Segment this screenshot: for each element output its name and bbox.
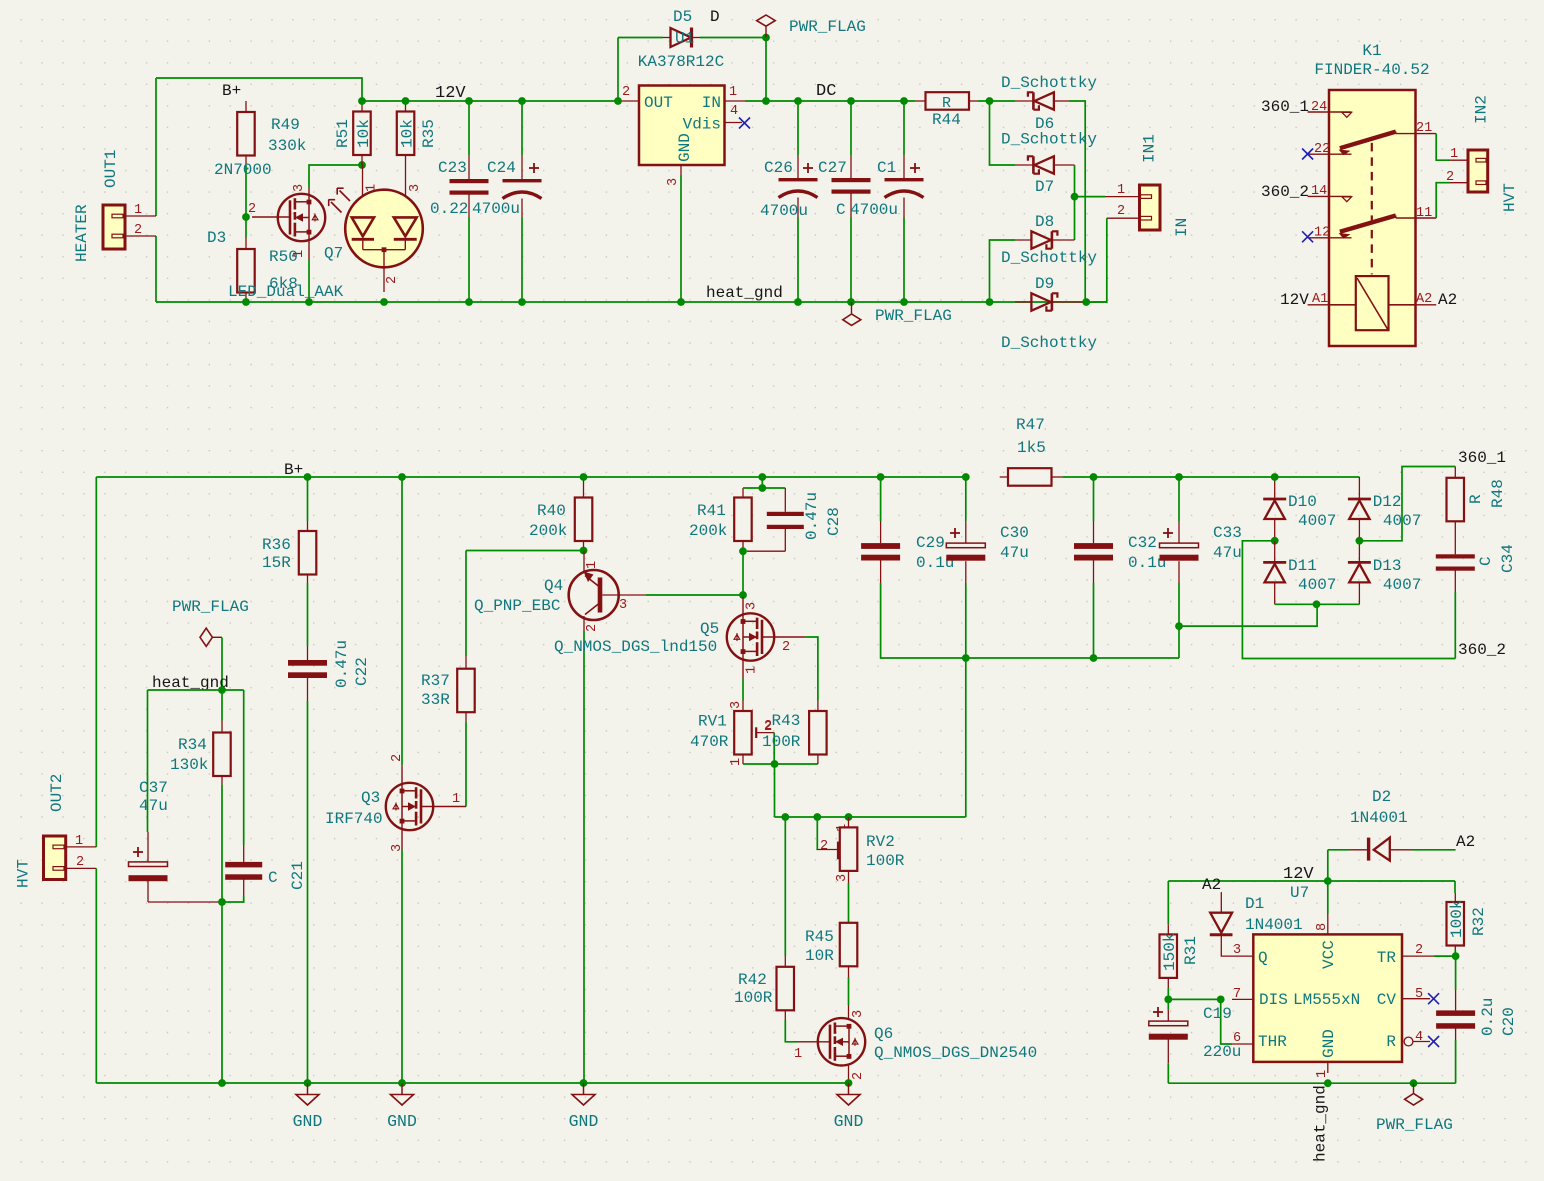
svg-text:R: R bbox=[1386, 1033, 1396, 1051]
svg-text:GND: GND bbox=[676, 133, 694, 162]
svg-text:2N7000: 2N7000 bbox=[214, 161, 272, 179]
power flag PWR_FLAG 555 bbox=[1376, 1083, 1453, 1134]
junction D9 cathode bbox=[1082, 298, 1090, 306]
wire to IN1 pin1 bbox=[1075, 196, 1106, 198]
junction C26 bottom bbox=[794, 298, 802, 306]
svg-text:D: D bbox=[710, 8, 720, 26]
junction 555 GND pin bbox=[1324, 1079, 1332, 1087]
svg-text:A2: A2 bbox=[1416, 292, 1432, 307]
resistor R42 100R bbox=[734, 817, 794, 1020]
svg-text:PWR_FLAG: PWR_FLAG bbox=[875, 307, 952, 325]
capacitor C19 220u bbox=[1149, 999, 1242, 1083]
svg-text:C28: C28 bbox=[825, 507, 843, 536]
connector OUT1 HEATER bbox=[73, 150, 156, 262]
resistor R45 10R bbox=[805, 923, 857, 977]
wire R49 to gate node bbox=[245, 166, 247, 238]
diode D8 D_Schottky bbox=[1001, 213, 1097, 267]
svg-text:R47: R47 bbox=[1016, 416, 1045, 434]
wire heat_gnd island rail bbox=[148, 689, 244, 691]
junction 12V 555 bbox=[1324, 877, 1332, 885]
wire R34 to bottom node bbox=[221, 785, 223, 902]
wire heat_gnd top rail bbox=[156, 301, 1107, 303]
wire R42 to Q6 gate bbox=[785, 1020, 798, 1042]
junction Q7 cathode bbox=[380, 298, 388, 306]
capacitor C20 0.2u bbox=[1436, 956, 1518, 1083]
svg-text:24: 24 bbox=[1311, 100, 1327, 115]
svg-text:470R: 470R bbox=[690, 733, 729, 751]
capacitor C27 4700u bbox=[818, 101, 898, 302]
svg-text:IRF740: IRF740 bbox=[325, 810, 383, 828]
wire caps bottom rail bbox=[966, 657, 1179, 659]
svg-text:RV2: RV2 bbox=[866, 833, 895, 851]
junction IN1 pin1 node bbox=[1071, 193, 1079, 201]
svg-text:10k: 10k bbox=[398, 119, 416, 148]
svg-text:U7: U7 bbox=[1290, 884, 1309, 902]
svg-text:A1: A1 bbox=[1312, 292, 1328, 307]
junction R40 bottom bbox=[580, 547, 588, 555]
svg-text:47u: 47u bbox=[1213, 544, 1242, 562]
junction C32 top bbox=[1090, 473, 1098, 481]
svg-text:K1: K1 bbox=[1362, 42, 1381, 60]
svg-text:7: 7 bbox=[1233, 987, 1241, 1002]
junction R40 top bbox=[580, 473, 588, 481]
junction C23 bottom bbox=[465, 298, 473, 306]
svg-text:100R: 100R bbox=[762, 733, 801, 751]
wire regulator GND bbox=[680, 175, 682, 302]
svg-text:47u: 47u bbox=[139, 797, 168, 815]
capacitor C26 4700u bbox=[760, 101, 818, 302]
junction Q5 drain node bbox=[739, 591, 747, 599]
svg-text:B+: B+ bbox=[284, 461, 303, 479]
junction R41 link bbox=[758, 484, 766, 492]
svg-text:IN: IN bbox=[1173, 218, 1191, 237]
svg-text:PWR_FLAG: PWR_FLAG bbox=[789, 18, 866, 36]
svg-text:1: 1 bbox=[794, 1047, 802, 1062]
svg-text:12V: 12V bbox=[1283, 865, 1314, 884]
wire GND rail bbox=[96, 1082, 848, 1084]
capacitor C30 47u bbox=[946, 477, 1029, 658]
svg-text:Q3: Q3 bbox=[361, 789, 380, 807]
svg-text:PWR_FLAG: PWR_FLAG bbox=[172, 598, 249, 616]
wire Q3 source to GND bbox=[401, 849, 403, 1083]
svg-text:C20: C20 bbox=[1500, 1007, 1518, 1036]
svg-text:OUT2: OUT2 bbox=[48, 774, 66, 812]
junction pin2 bbox=[1452, 952, 1460, 960]
junction D11/D13 bottom bbox=[1313, 600, 1321, 608]
resistor R41 200k bbox=[689, 488, 752, 551]
svg-text:D7: D7 bbox=[1035, 178, 1054, 196]
junction IN rail bbox=[762, 97, 770, 105]
svg-text:4007: 4007 bbox=[1298, 512, 1336, 530]
junction row RV2 wiper bbox=[813, 813, 821, 821]
svg-text:D_Schottky: D_Schottky bbox=[1001, 131, 1097, 149]
svg-text:2: 2 bbox=[134, 223, 142, 238]
junction R35 top bbox=[402, 97, 410, 105]
svg-text:IN2: IN2 bbox=[1472, 95, 1490, 124]
capacitor C24 4700u bbox=[472, 101, 542, 302]
resistor R37 33R bbox=[421, 656, 475, 721]
relay K1 FINDER-40.52 bbox=[1308, 42, 1437, 346]
resistor R47 1k5 bbox=[1000, 416, 1063, 486]
svg-text:12V: 12V bbox=[435, 84, 466, 103]
svg-text:360_1: 360_1 bbox=[1261, 98, 1309, 116]
svg-text:CV: CV bbox=[1377, 991, 1397, 1009]
junction C24 bottom bbox=[518, 298, 526, 306]
svg-text:Q7: Q7 bbox=[324, 245, 343, 263]
junction R36 top bbox=[304, 473, 312, 481]
resistor R48 R bbox=[1447, 467, 1507, 555]
wire OUT1 top loop bbox=[156, 78, 362, 101]
wire D10 mid to 360_2 bbox=[1242, 541, 1455, 659]
svg-text:4700u: 4700u bbox=[760, 202, 808, 220]
wire RV1 node down to row bbox=[774, 764, 776, 817]
svg-text:3: 3 bbox=[619, 598, 627, 613]
svg-text:C19: C19 bbox=[1203, 1005, 1232, 1023]
junction C37/C21 node bbox=[218, 898, 226, 906]
capacitor C29 0.1u bbox=[861, 477, 966, 658]
svg-text:C29: C29 bbox=[916, 534, 945, 552]
resistor R43 100R bbox=[762, 701, 827, 765]
wire Q5 gate to R43 bbox=[806, 637, 818, 701]
svg-text:10k: 10k bbox=[355, 119, 373, 148]
junction GND Q3 bbox=[398, 1079, 406, 1087]
potentiometer RV2 100R bbox=[816, 817, 904, 883]
svg-text:3: 3 bbox=[744, 602, 759, 610]
svg-text:4700u: 4700u bbox=[472, 200, 520, 218]
resistor R31 150k bbox=[1160, 924, 1200, 999]
svg-text:1: 1 bbox=[75, 834, 83, 849]
svg-text:47u: 47u bbox=[1000, 544, 1029, 562]
svg-text:1: 1 bbox=[729, 85, 737, 100]
svg-text:22: 22 bbox=[1314, 142, 1330, 157]
svg-text:U1: U1 bbox=[675, 30, 694, 48]
svg-text:KA378R12C: KA378R12C bbox=[638, 53, 724, 71]
svg-text:1N4001: 1N4001 bbox=[1245, 916, 1303, 934]
svg-text:R49: R49 bbox=[271, 116, 300, 134]
junction 2N7000 source bbox=[305, 298, 313, 306]
wire rail IN to R44 bbox=[745, 100, 915, 102]
diode D2 1N4001 bbox=[1328, 788, 1456, 861]
junction C24 top bbox=[518, 97, 526, 105]
svg-text:1k5: 1k5 bbox=[1017, 439, 1046, 457]
wire 12V rail 555 bbox=[1168, 880, 1455, 882]
svg-text:4007: 4007 bbox=[1298, 576, 1336, 594]
svg-text:B+: B+ bbox=[222, 82, 241, 100]
svg-text:TR: TR bbox=[1377, 949, 1397, 967]
svg-text:D8: D8 bbox=[1035, 213, 1054, 231]
svg-text:4700u: 4700u bbox=[850, 201, 898, 219]
junction C30 top bbox=[962, 473, 970, 481]
capacitor C1 4700u bbox=[877, 101, 924, 302]
svg-text:Q4: Q4 bbox=[544, 577, 563, 595]
svg-text:200k: 200k bbox=[529, 522, 567, 540]
svg-text:D1: D1 bbox=[1245, 895, 1264, 913]
diode D12 4007 bbox=[1348, 477, 1421, 541]
junction C27 top bbox=[847, 97, 855, 105]
resistor R49 330k bbox=[237, 101, 306, 166]
junction C23 top bbox=[465, 97, 473, 105]
junction D12/D13 mid bbox=[1356, 537, 1364, 545]
junction C33 top bbox=[1175, 473, 1183, 481]
svg-text:R51: R51 bbox=[334, 119, 352, 148]
svg-text:Q_NMOS_DGS_DN2540: Q_NMOS_DGS_DN2540 bbox=[874, 1044, 1037, 1062]
svg-text:360_2: 360_2 bbox=[1261, 183, 1309, 201]
wire pin7 node down to pin6 bbox=[1221, 999, 1232, 1044]
svg-text:2: 2 bbox=[782, 640, 790, 655]
junction heat_gnd island bbox=[218, 686, 226, 694]
junction row RV2 top bbox=[845, 813, 853, 821]
svg-text:11: 11 bbox=[1416, 206, 1432, 221]
junction pin7 node bbox=[1217, 996, 1225, 1004]
junction R41 bottom bbox=[739, 547, 747, 555]
svg-text:IN: IN bbox=[702, 94, 721, 112]
svg-text:C1: C1 bbox=[877, 159, 896, 177]
junction gate node bbox=[242, 213, 250, 221]
svg-text:0.22: 0.22 bbox=[430, 200, 468, 218]
svg-text:heat_gnd: heat_gnd bbox=[1311, 1085, 1329, 1162]
svg-text:Q_NMOS_DGS_lnd150: Q_NMOS_DGS_lnd150 bbox=[554, 638, 717, 656]
svg-text:R44: R44 bbox=[932, 111, 961, 129]
svg-text:1: 1 bbox=[1315, 1070, 1330, 1078]
wire R40 base node bbox=[466, 550, 584, 552]
svg-text:1: 1 bbox=[1117, 183, 1125, 198]
svg-text:R36: R36 bbox=[262, 536, 291, 554]
ground GND 3 bbox=[583, 1083, 585, 1095]
svg-text:12V: 12V bbox=[1280, 291, 1309, 309]
resistor R35 10k bbox=[397, 101, 438, 218]
capacitor C32 0.1u bbox=[1074, 477, 1166, 658]
junction C30 bottom bbox=[962, 654, 970, 662]
wire C37 left leg bbox=[147, 690, 149, 832]
svg-text:Q6: Q6 bbox=[874, 1025, 893, 1043]
capacitor C34 C bbox=[1436, 544, 1517, 658]
svg-text:14: 14 bbox=[1311, 184, 1327, 199]
junction gate-R51 node bbox=[358, 161, 366, 169]
svg-text:A2: A2 bbox=[1456, 833, 1475, 851]
svg-text:Q5: Q5 bbox=[700, 620, 719, 638]
wire heat_gnd 555 rail bbox=[1168, 1082, 1455, 1084]
svg-text:D13: D13 bbox=[1373, 557, 1402, 575]
wire 12V rail bbox=[362, 100, 618, 102]
wire heater pin2 down bbox=[155, 236, 157, 302]
wire to IN1 pin2 bbox=[1086, 218, 1107, 302]
svg-text:DIS: DIS bbox=[1259, 991, 1288, 1009]
junction C32 bottom bbox=[1090, 654, 1098, 662]
svg-text:3: 3 bbox=[292, 184, 307, 192]
svg-text:A2: A2 bbox=[1202, 876, 1221, 894]
transistor Q3 IRF740 bbox=[325, 477, 466, 852]
wire pin2 node bbox=[1434, 955, 1456, 957]
wire D8 cathode up bbox=[1074, 197, 1076, 240]
wire 12V to pin8 bbox=[1327, 881, 1329, 914]
wire Q4 collector bbox=[646, 594, 743, 596]
svg-text:2: 2 bbox=[622, 85, 630, 100]
svg-text:150k: 150k bbox=[1161, 933, 1179, 971]
svg-text:C34: C34 bbox=[1499, 544, 1517, 573]
svg-text:D_Schottky: D_Schottky bbox=[1001, 74, 1097, 92]
no-connect pin5 bbox=[1428, 993, 1439, 1004]
resistor R34 130k bbox=[170, 690, 231, 785]
connector IN2 HVT bbox=[1446, 95, 1519, 212]
junction R51 top bbox=[358, 97, 366, 105]
wire D11 bottom bbox=[1275, 603, 1317, 605]
wire B+ rail bbox=[96, 476, 966, 478]
svg-text:C24: C24 bbox=[487, 159, 516, 177]
svg-text:330k: 330k bbox=[268, 137, 306, 155]
junction C33 mid node bbox=[1175, 622, 1183, 630]
ground GND 2 bbox=[401, 1083, 403, 1095]
junction D10/D11 mid bbox=[1271, 537, 1279, 545]
svg-text:2: 2 bbox=[851, 1072, 866, 1080]
svg-text:C33: C33 bbox=[1213, 524, 1242, 542]
svg-text:130k: 130k bbox=[170, 756, 208, 774]
svg-text:2: 2 bbox=[76, 855, 84, 870]
svg-text:LED_Dual_AAK: LED_Dual_AAK bbox=[228, 283, 344, 301]
transistor Q6 Q_NMOS_DGS_DN2540 bbox=[794, 1005, 1037, 1083]
transistor Q4 Q_PNP_EBC bbox=[474, 551, 646, 633]
svg-text:GND: GND bbox=[293, 1112, 323, 1131]
svg-text:3: 3 bbox=[666, 178, 681, 186]
svg-text:21: 21 bbox=[1416, 121, 1432, 136]
junction D8 rail bbox=[986, 298, 994, 306]
svg-text:D12: D12 bbox=[1373, 493, 1402, 511]
wire feedback row bbox=[775, 816, 966, 818]
svg-text:heat_gnd: heat_gnd bbox=[706, 284, 783, 302]
junction rail R41 bbox=[758, 473, 766, 481]
transistor Q1 2N7000 bbox=[214, 161, 325, 260]
transistor Q5 Q_NMOS_DGS_lnd150 bbox=[554, 597, 806, 679]
svg-text:LM555xN: LM555xN bbox=[1293, 991, 1360, 1009]
svg-text:OUT1: OUT1 bbox=[102, 150, 120, 188]
svg-text:6: 6 bbox=[1233, 1031, 1241, 1046]
svg-text:R40: R40 bbox=[537, 502, 566, 520]
svg-text:12: 12 bbox=[1314, 226, 1330, 241]
svg-text:R42: R42 bbox=[738, 971, 767, 989]
svg-text:1: 1 bbox=[292, 250, 307, 258]
power flag PWR_FLAG mid bbox=[172, 598, 249, 646]
resistor R44 R bbox=[915, 92, 1015, 129]
svg-text:D10: D10 bbox=[1288, 493, 1317, 511]
svg-text:R35: R35 bbox=[420, 119, 438, 148]
svg-text:2: 2 bbox=[820, 839, 828, 854]
svg-text:R37: R37 bbox=[421, 672, 450, 690]
svg-text:100k: 100k bbox=[1448, 900, 1466, 938]
junction row R42 bbox=[781, 813, 789, 821]
svg-text:4: 4 bbox=[1415, 1030, 1423, 1045]
wire D13 bottom bbox=[1317, 603, 1360, 605]
svg-text:3: 3 bbox=[835, 874, 850, 882]
svg-text:5: 5 bbox=[1415, 987, 1423, 1002]
svg-text:R41: R41 bbox=[697, 502, 726, 520]
svg-text:C: C bbox=[268, 869, 278, 887]
svg-text:Q_PNP_EBC: Q_PNP_EBC bbox=[474, 597, 560, 615]
svg-text:2: 2 bbox=[1415, 943, 1423, 958]
capacitor C28 0.47u bbox=[747, 488, 843, 551]
wire D2 to 12V bbox=[1327, 850, 1329, 881]
svg-text:GND: GND bbox=[1320, 1029, 1338, 1058]
junction R31 bottom bbox=[1164, 996, 1172, 1004]
wire D7 cathode branch bbox=[990, 101, 1016, 165]
svg-text:15R: 15R bbox=[262, 554, 291, 572]
svg-text:C: C bbox=[836, 201, 846, 219]
wire heater pin1 bbox=[155, 78, 157, 216]
junction R50 bottom bbox=[242, 298, 250, 306]
junction C26 top bbox=[794, 97, 802, 105]
svg-text:10R: 10R bbox=[805, 947, 834, 965]
diode D6 D_Schottky bbox=[1001, 74, 1097, 133]
svg-text:8: 8 bbox=[1315, 923, 1330, 931]
wire PWR_FLAG to heat_gnd bbox=[221, 638, 223, 691]
svg-text:A2: A2 bbox=[1438, 291, 1457, 309]
diode D11 4007 bbox=[1263, 541, 1336, 605]
junction OUT pin bbox=[614, 97, 622, 105]
no-connect relay pin22 bbox=[1302, 149, 1313, 160]
svg-text:3: 3 bbox=[1233, 943, 1241, 958]
no-connect pin4 bbox=[1428, 1036, 1439, 1047]
junction C1 top bbox=[900, 97, 908, 105]
svg-text:2: 2 bbox=[585, 624, 600, 632]
svg-text:OUT: OUT bbox=[644, 94, 673, 112]
svg-text:1: 1 bbox=[1450, 147, 1458, 162]
svg-text:RV1: RV1 bbox=[698, 713, 727, 731]
svg-text:0.47u: 0.47u bbox=[803, 492, 821, 540]
wire D12 mid to 360_1 bbox=[1359, 467, 1455, 541]
svg-text:1: 1 bbox=[134, 203, 142, 218]
resistor R50 6k8 bbox=[207, 229, 298, 302]
svg-text:1: 1 bbox=[744, 666, 759, 674]
svg-text:HVT: HVT bbox=[1501, 183, 1519, 212]
wire RV2 wiper link bbox=[816, 817, 818, 850]
svg-text:FINDER-40.52: FINDER-40.52 bbox=[1314, 61, 1429, 79]
svg-text:C30: C30 bbox=[1000, 524, 1029, 542]
svg-text:R: R bbox=[1467, 494, 1485, 504]
diode D5 bbox=[618, 8, 766, 101]
junction GND Q6 bbox=[845, 1079, 853, 1087]
wire C22 to GND bbox=[307, 701, 309, 1083]
junction R44 right bbox=[986, 97, 994, 105]
svg-text:DC: DC bbox=[816, 82, 836, 101]
ground GND 4 bbox=[848, 1083, 850, 1095]
svg-text:3: 3 bbox=[408, 184, 423, 192]
capacitor C21 C bbox=[225, 690, 307, 902]
svg-text:2: 2 bbox=[390, 754, 405, 762]
diode D13 4007 bbox=[1348, 541, 1421, 605]
svg-text:HEATER: HEATER bbox=[73, 204, 91, 262]
junction C27 bottom bbox=[847, 298, 855, 306]
wire node to GND rail bbox=[221, 902, 223, 1083]
timer U7 LM555xN bbox=[1232, 884, 1434, 1078]
power flag PWR_FLAG top bbox=[757, 15, 866, 41]
junction C1 bottom bbox=[900, 298, 908, 306]
wire R36 to C22 bbox=[307, 583, 309, 646]
svg-text:C32: C32 bbox=[1128, 534, 1157, 552]
svg-text:2: 2 bbox=[248, 202, 256, 217]
resistor R40 200k bbox=[529, 477, 592, 551]
svg-text:D11: D11 bbox=[1288, 557, 1317, 575]
capacitor C37 47u bbox=[129, 779, 220, 902]
svg-text:4: 4 bbox=[730, 104, 738, 119]
svg-text:2: 2 bbox=[1117, 204, 1125, 219]
junction GND Q4 bbox=[580, 1079, 588, 1087]
svg-text:200k: 200k bbox=[689, 522, 727, 540]
svg-text:D_Schottky: D_Schottky bbox=[1001, 334, 1097, 352]
regulator U1 KA378R12C bbox=[618, 53, 750, 186]
svg-text:C21: C21 bbox=[289, 861, 307, 890]
svg-text:R31: R31 bbox=[1182, 936, 1200, 965]
LED Q7 LED_Dual_AAK bbox=[228, 165, 423, 301]
connector OUT2 HVT bbox=[14, 774, 96, 888]
capacitor C23 0.22 bbox=[430, 101, 489, 302]
